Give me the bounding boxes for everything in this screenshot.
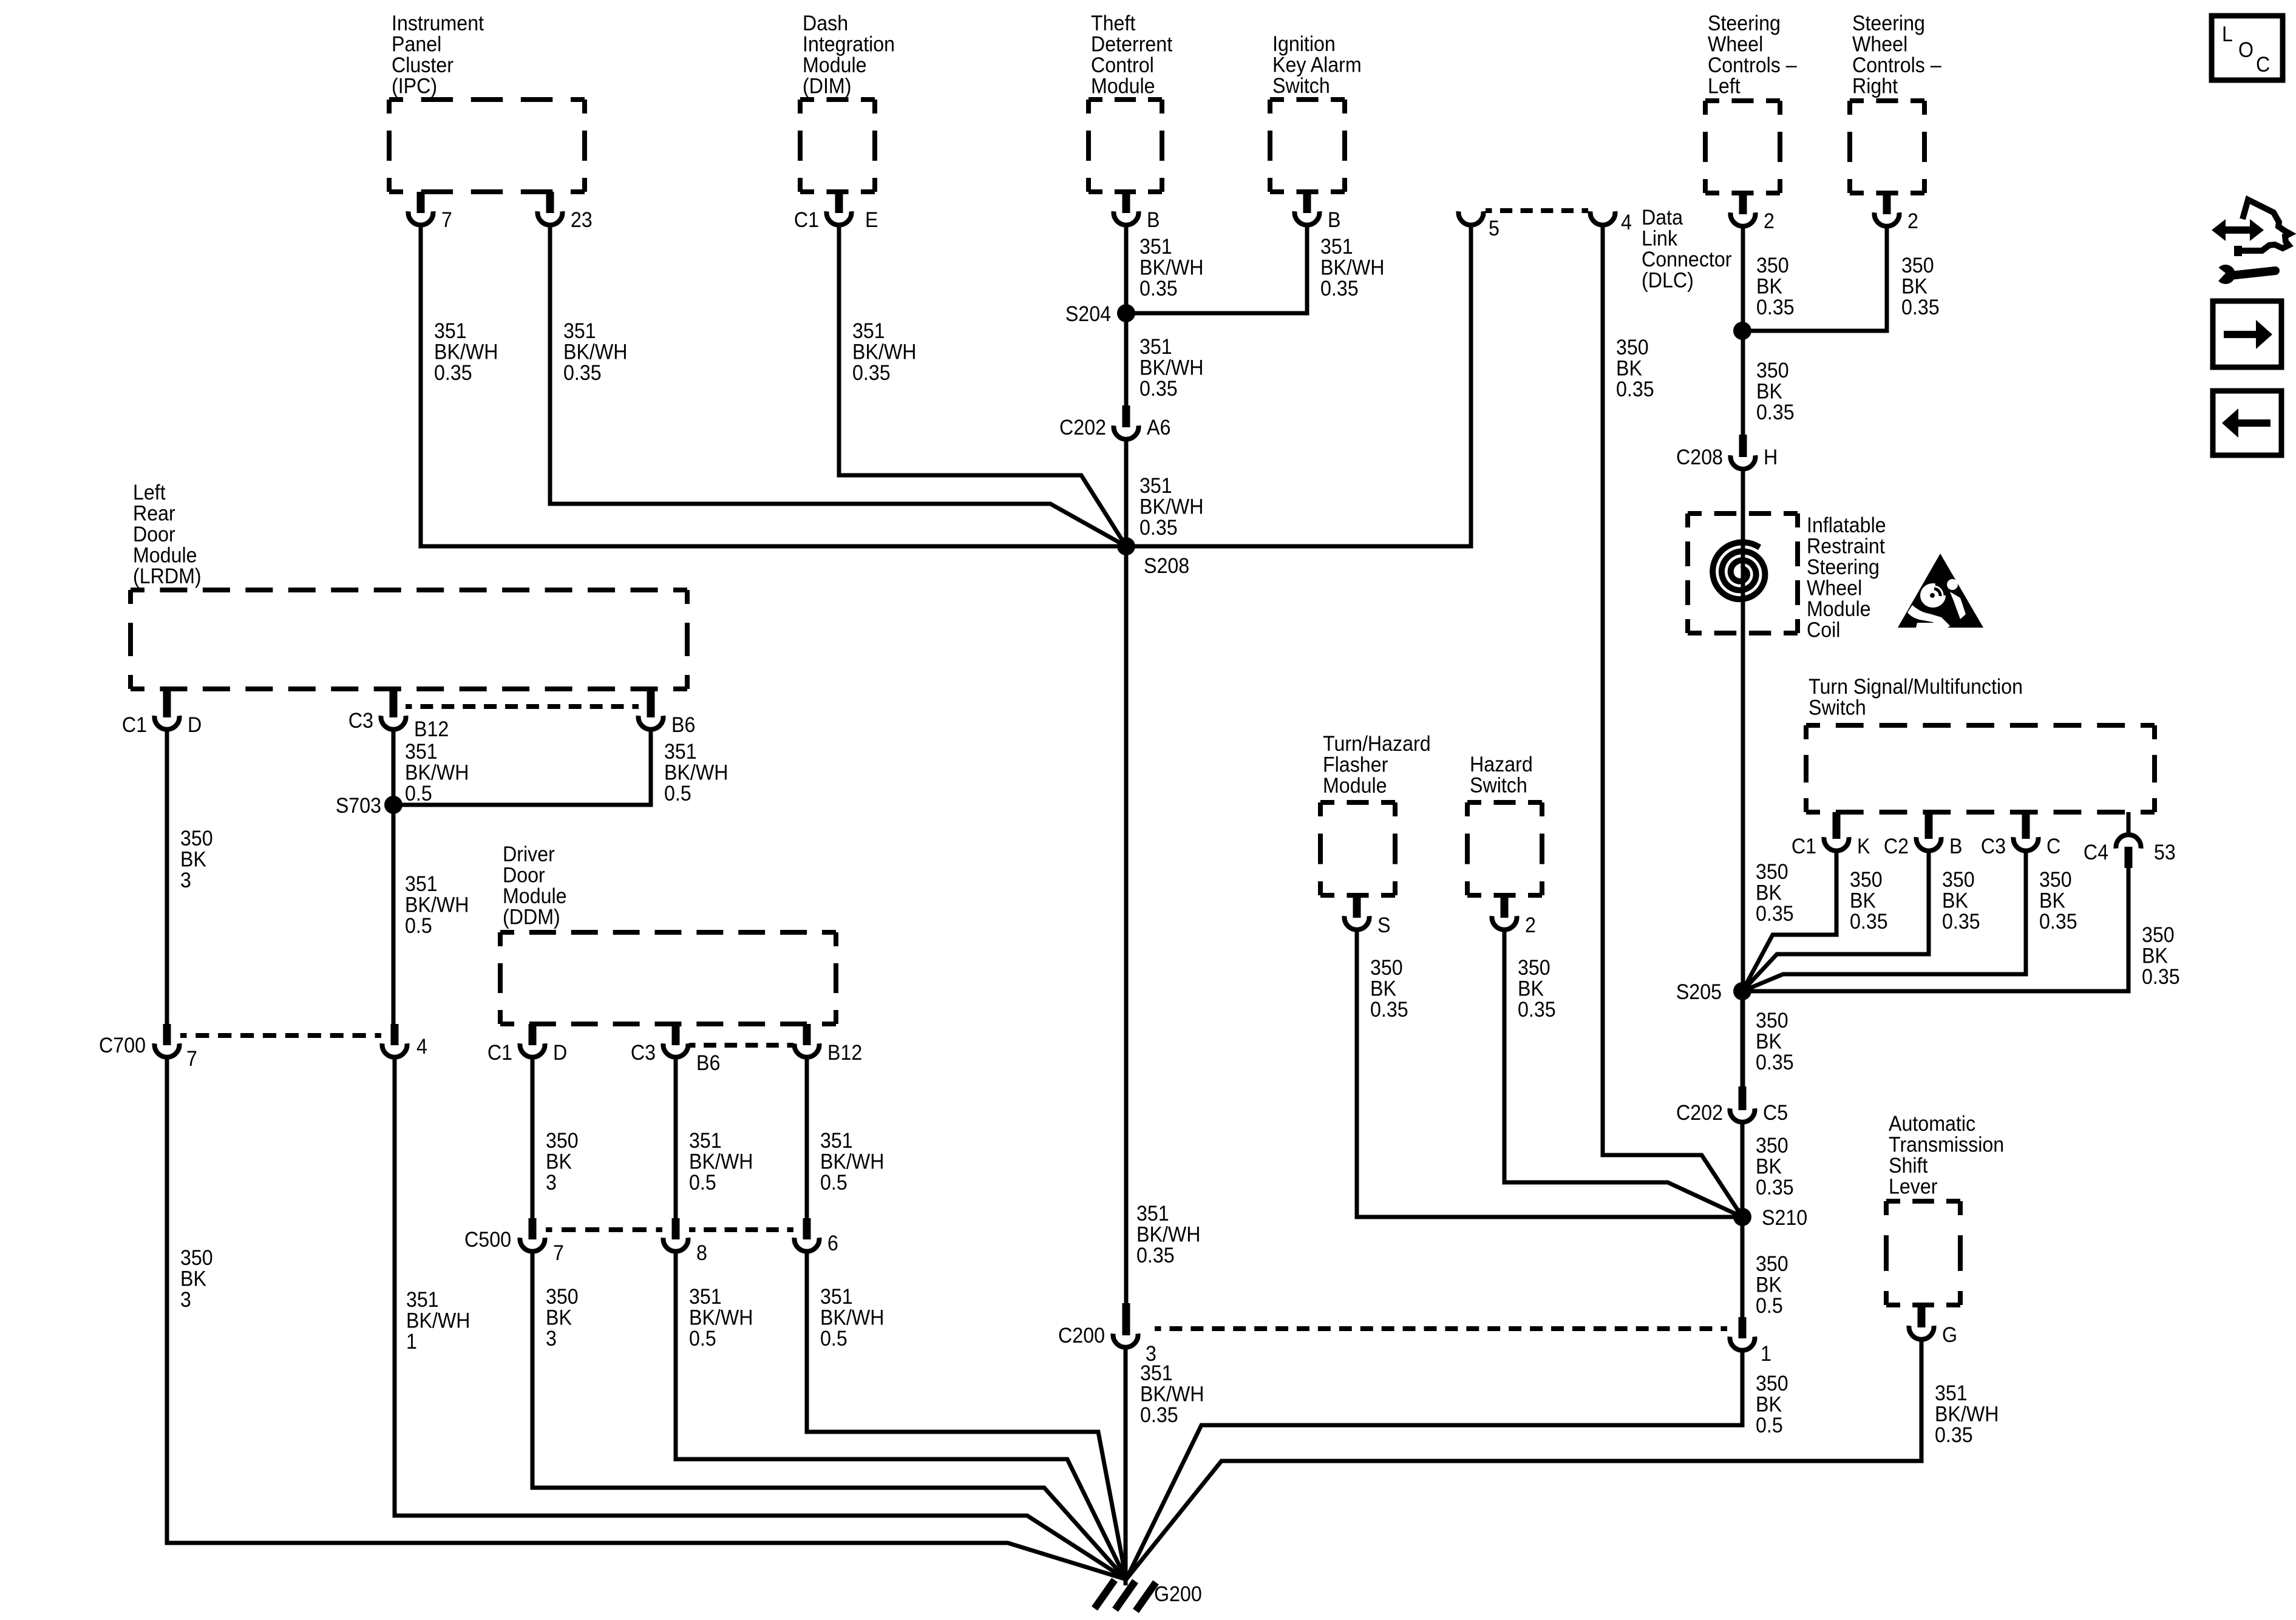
component Theft Deterrent Control Module dashed box [1089,12,1173,192]
svg-text:0.5: 0.5 [689,1171,716,1195]
svg-text:0.35: 0.35 [2142,966,2180,989]
svg-text:Steering: Steering [1852,12,1925,36]
svg-text:S210: S210 [1762,1207,1807,1230]
wire 351 BK/WH from S703 to C700 pin 4 [392,805,396,1024]
svg-text:Flasher: Flasher [1323,753,1388,777]
label 350 BK 0.35 (Flasher wire) [1370,957,1408,1022]
dashed link between C500 pin 7 and pin 8 [546,1227,662,1232]
connector pin 2 of Steering Wheel Controls Right [1875,193,1918,233]
svg-text:BK/WH: BK/WH [1140,356,1203,380]
connector pin C3-B6 of DDM [631,1024,721,1075]
svg-text:C500: C500 [464,1229,511,1252]
svg-text:D: D [553,1042,567,1065]
svg-text:7: 7 [186,1048,197,1071]
svg-text:351: 351 [1136,1202,1169,1226]
svg-text:C: C [2256,53,2270,77]
svg-text:351: 351 [405,741,438,764]
connector pin B12 of DDM [795,1024,863,1065]
wire 351 BK/WH from shift lever pin G to G200 [1126,1339,1921,1579]
svg-text:2: 2 [1907,210,1918,234]
svg-text:350: 350 [1756,254,1789,278]
connector pin C1-D of DDM [487,1024,567,1065]
svg-text:Module: Module [1091,75,1155,98]
svg-text:(DDM): (DDM) [503,906,560,929]
svg-text:Left: Left [1708,75,1741,98]
connector pin 2 of Steering Wheel Controls Left [1731,193,1775,233]
svg-text:B12: B12 [414,718,449,742]
svg-text:0.35: 0.35 [1935,1424,1973,1448]
connector pin C1-D of LRDM [122,689,202,737]
connector pin C1-K of Turn Signal/Multifunction Switch [1792,812,1870,858]
label 351 BK/WH 0.5 (DDM B6 wire) [689,1130,753,1195]
connector C208 pin H in-line [1676,435,1778,469]
connector C202 pin A6 in-line [1059,405,1170,439]
component Inflatable Restraint Steering Wheel Module Coil dashed box with coil symbol [1688,513,1886,642]
icon service tool with arrows [2210,200,2290,284]
wire 351 BK/WH from Ignition Key Alarm Switch pin B to S204 [1126,225,1307,313]
icon back arrow box [2213,391,2281,455]
svg-text:0.35: 0.35 [1140,517,1178,540]
svg-text:BK: BK [546,1306,572,1330]
svg-text:4: 4 [416,1035,427,1059]
connector pin C4-53 of Turn Signal/Multifunction Switch [2084,812,2176,868]
svg-text:351: 351 [689,1130,722,1153]
svg-text:K: K [1857,835,1870,859]
wire 350 BK from DLC pin 4 to S210 [1603,225,1742,1217]
svg-text:Turn/Hazard: Turn/Hazard [1323,733,1431,756]
svg-text:BK: BK [1756,380,1782,404]
svg-text:BK/WH: BK/WH [406,1309,470,1333]
svg-text:C202: C202 [1676,1102,1723,1125]
svg-text:D: D [188,714,202,737]
connector pin C1-E of DIM [794,192,878,232]
svg-text:BK: BK [1756,1273,1782,1297]
svg-text:Hazard: Hazard [1470,753,1533,777]
dashed link between DLC pin 5 and pin 4 [1486,208,1588,213]
svg-text:BK/WH: BK/WH [1935,1403,1999,1426]
svg-text:BK: BK [2142,944,2168,968]
svg-text:Rear: Rear [133,502,175,526]
svg-text:Wheel: Wheel [1708,33,1763,56]
svg-text:0.35: 0.35 [1518,998,1556,1022]
svg-text:7: 7 [553,1242,564,1266]
label 350 BK 0.35 (wire junction to C208) [1756,359,1795,425]
junction of steering wheel controls grounds [1733,322,1751,340]
label 351 BK/WH 0.35 (Ignition Key Alarm Switch wire) [1320,236,1384,301]
wire 350 BK from Flasher pin S to S210 [1357,929,1742,1217]
svg-text:0.35: 0.35 [1320,277,1359,301]
connector pin C3-C of Turn Signal/Multifunction Switch [1981,812,2060,858]
svg-text:0.35: 0.35 [1756,1176,1794,1200]
svg-text:B: B [1328,209,1340,232]
svg-text:BK: BK [180,848,206,872]
svg-text:350: 350 [1901,254,1934,278]
svg-text:23: 23 [571,209,593,232]
svg-text:5: 5 [1489,217,1500,241]
svg-text:0.5: 0.5 [405,915,432,938]
wire 350 BK from Hazard Switch pin 2 to S210 [1504,929,1742,1217]
svg-text:351: 351 [1140,475,1172,498]
svg-text:351: 351 [689,1286,722,1309]
svg-text:350: 350 [1756,861,1788,884]
svg-text:BK/WH: BK/WH [820,1150,884,1174]
svg-text:C1: C1 [794,209,819,232]
svg-text:S205: S205 [1676,981,1722,1005]
svg-text:350: 350 [1942,869,1975,892]
connector pin B6 of LRDM [639,689,696,737]
label 351 BK/WH 0.35 (IPC pin 7 wire) [434,320,498,385]
svg-text:6: 6 [827,1232,838,1256]
wire 351 BK/WH from C500 pin 6 to G200 [807,1251,1126,1579]
svg-text:0.35: 0.35 [1901,296,1940,320]
connector pin 1 in-line (to C200 pin 3) [1730,1317,1771,1366]
svg-text:0.35: 0.35 [1140,378,1178,401]
component Turn/Hazard Flasher Module dashed box [1320,733,1431,895]
svg-text:0.35: 0.35 [1136,1244,1175,1268]
svg-text:Inflatable: Inflatable [1807,514,1886,538]
svg-text:C208: C208 [1676,446,1723,470]
component DDM (Driver Door Module) dashed box [500,843,836,1024]
svg-text:BK: BK [1850,889,1876,913]
svg-text:2: 2 [1525,914,1536,938]
svg-text:350: 350 [180,1247,213,1270]
svg-text:350: 350 [1756,1372,1788,1396]
svg-text:C3: C3 [631,1042,656,1065]
wire 351 BK/WH from DDM pin B6 to C500 pin 8 [674,1057,678,1218]
component Steering Wheel Controls Right dashed box [1850,12,1941,193]
svg-text:Switch: Switch [1470,774,1527,798]
wire 351 BK/WH from DIM pin E to S208 [839,225,1126,546]
wire 351 BK/WH from C700 pin 4 to G200 [395,1057,1126,1579]
svg-text:BK: BK [1942,889,1968,913]
svg-text:350: 350 [1756,359,1789,383]
svg-text:BK: BK [2039,889,2065,913]
svg-text:2: 2 [1764,210,1775,234]
connector pin G of Automatic Transmission Shift Lever [1909,1305,1958,1347]
connector C500 pin 7 in-line [464,1218,564,1265]
label 351 BK/WH 0.35 (shift lever wire) [1935,1382,1999,1448]
label 351 BK/WH 0.35 (DIM wire) [852,320,916,385]
connector C500 pin 6 in-line [795,1218,838,1255]
svg-text:B: B [1949,835,1962,859]
dashed link between LRDM pin B12 and pin B6 [406,704,639,709]
svg-text:S208: S208 [1144,555,1189,578]
svg-text:Theft: Theft [1091,12,1136,36]
svg-text:Instrument: Instrument [392,12,484,36]
dashed link between C700 pin 7 and pin 4 [180,1033,381,1038]
svg-text:Right: Right [1852,75,1898,98]
svg-text:C700: C700 [99,1034,146,1058]
svg-text:0.5: 0.5 [1756,1414,1783,1438]
component Ignition Key Alarm Switch dashed box [1270,33,1362,192]
svg-text:7: 7 [441,209,452,232]
svg-text:351: 351 [1935,1382,1968,1406]
label 350 BK 0.35 (SWC Right wire) [1901,254,1940,320]
splice S205 [1676,981,1751,1005]
label 350 BK 0.35 (SWC Left wire) [1756,254,1795,320]
connector C500 pin 8 in-line [664,1218,707,1265]
svg-text:350: 350 [1756,1134,1788,1158]
svg-text:350: 350 [1850,869,1883,892]
svg-text:0.35: 0.35 [1756,1051,1794,1075]
svg-text:Controls –: Controls – [1708,54,1797,78]
svg-text:0.5: 0.5 [820,1171,847,1195]
connector pin B of Ignition Key Alarm Switch [1295,192,1341,232]
svg-text:Key Alarm: Key Alarm [1272,53,1362,77]
component LRDM (Left Rear Door Module) dashed box [131,481,687,689]
svg-text:0.5: 0.5 [820,1327,847,1351]
svg-text:0.5: 0.5 [405,782,432,806]
svg-text:0.35: 0.35 [1140,277,1178,301]
label 351 BK/WH 0.35 (TDCM wire above S204) [1140,236,1203,301]
splice S204 [1065,303,1135,327]
svg-text:0.35: 0.35 [1850,910,1888,934]
label 350 BK 0.35 (TSM 53 wire) [2142,924,2180,989]
wire 350 BK from TSM pin 53 to S205 [1742,868,2128,991]
svg-text:(IPC): (IPC) [392,75,437,98]
svg-text:BK/WH: BK/WH [852,341,916,364]
svg-text:C5: C5 [1763,1102,1788,1125]
svg-text:Controls –: Controls – [1852,54,1941,78]
label 351 BK/WH 0.5 (wire C500 pin 8 to G200) [689,1286,753,1351]
svg-text:Module: Module [803,54,867,78]
svg-text:0.35: 0.35 [434,362,472,385]
svg-text:0.35: 0.35 [1756,401,1795,425]
svg-text:Driver: Driver [503,843,555,867]
svg-text:351: 351 [405,873,438,896]
svg-text:Transmission: Transmission [1889,1133,2004,1157]
wire 350 BK from C202 C5 to S210 [1741,1122,1745,1217]
svg-text:A6: A6 [1147,416,1170,440]
label 351 BK/WH 0.35 (IPC pin 23 wire) [563,320,627,385]
wire 351 BK/WH from C200 pin 3 to G200 [1124,1347,1128,1585]
svg-text:Door: Door [133,523,175,547]
svg-text:Door: Door [503,864,545,887]
svg-text:Switch: Switch [1272,75,1330,98]
svg-text:BK: BK [1518,977,1544,1001]
svg-text:BK: BK [1901,275,1927,299]
svg-text:BK/WH: BK/WH [820,1306,884,1330]
svg-text:0.5: 0.5 [689,1327,716,1351]
svg-text:S204: S204 [1065,303,1111,327]
label 351 BK/WH 0.35 (wire C202 A6 to S208) [1140,475,1203,540]
svg-text:BK: BK [1756,881,1782,905]
wire 350 BK from connector 1 to G200 [1126,1350,1742,1579]
component Automatic Transmission Shift Lever dashed box [1886,1113,2004,1305]
svg-text:0.35: 0.35 [2039,910,2077,934]
svg-text:3: 3 [546,1327,557,1351]
connector C700 pin 7 in-line [99,1024,197,1071]
svg-text:G: G [1942,1324,1957,1347]
svg-text:BK: BK [1756,1393,1782,1417]
svg-text:(LRDM): (LRDM) [133,565,202,589]
svg-text:Deterrent: Deterrent [1091,33,1173,56]
svg-text:C3: C3 [348,710,373,733]
component Steering Wheel Controls Left dashed box [1705,12,1797,193]
wire 350 BK from TSM pin B to S205 [1742,850,1929,991]
connector pin 23 of IPC [537,192,592,232]
svg-text:B6: B6 [696,1052,720,1076]
svg-text:O: O [2238,39,2254,63]
label 350 BK 0.35 (wire coil to S205) [1756,861,1794,926]
wire 351 BK/WH from LRDM pin B12 to S703 [392,729,396,805]
svg-text:S: S [1377,914,1390,938]
splice S210 [1733,1207,1807,1230]
svg-text:BK: BK [1756,275,1782,299]
svg-text:3: 3 [546,1171,557,1195]
label 350 BK 0.5 (wire S210 to connector 1) [1756,1253,1788,1318]
svg-text:350: 350 [2142,924,2175,947]
svg-text:BK/WH: BK/WH [405,893,469,917]
svg-text:Module: Module [1323,774,1387,798]
svg-text:C: C [2046,835,2060,859]
svg-text:BK/WH: BK/WH [405,761,469,785]
svg-text:BK: BK [1756,1030,1782,1054]
svg-text:B: B [1147,209,1160,232]
connector pin S of Turn/Hazard Flasher Module [1345,895,1391,937]
svg-text:0.35: 0.35 [563,362,602,385]
svg-text:BK/WH: BK/WH [664,761,728,785]
label 351 BK/WH 0.5 (wire S703 to C700 pin 4) [405,873,469,938]
svg-text:351: 351 [1320,236,1353,259]
connector pin 4 of DLC [1591,211,1632,235]
component Hazard Switch dashed box [1467,753,1542,895]
label 350 BK 0.35 (wire S205 to C202 C5) [1756,1009,1794,1075]
svg-text:Dash: Dash [803,12,848,36]
splice S208 [1117,537,1189,578]
svg-text:Module: Module [503,885,567,909]
svg-text:Ignition: Ignition [1272,33,1336,56]
svg-text:8: 8 [696,1242,707,1266]
wire 350 BK from C208 H through coil to S205 [1741,469,1745,1086]
wire 351 BK/WH from Theft Deterrent Control Module pin B to C202 A6 [1124,225,1129,405]
svg-text:3: 3 [180,869,191,893]
svg-text:350: 350 [546,1286,579,1309]
label 351 BK/WH 0.5 (LRDM B6 wire) [664,741,728,806]
svg-text:BK/WH: BK/WH [1136,1223,1200,1247]
svg-text:Wheel: Wheel [1807,577,1862,600]
svg-text:351: 351 [434,320,467,344]
icon forward arrow box [2213,301,2281,367]
svg-text:0.35: 0.35 [852,362,891,385]
svg-text:0.35: 0.35 [1140,1404,1178,1428]
svg-text:H: H [1764,446,1778,470]
connector C200 pin 3 in-line [1058,1303,1156,1366]
wire 350 BK from C700 pin 7 to G200 [167,1057,1126,1579]
wire 351 BK/WH from LRDM pin B6 to S703 [393,729,651,805]
connector pin 2 of Hazard Switch [1492,895,1536,937]
dashed link between C500 pin 8 and pin 6 [689,1227,793,1232]
svg-text:BK: BK [546,1150,572,1174]
svg-text:(DLC): (DLC) [1642,269,1694,293]
wire 350 BK from Steering Wheel Controls Right pin 2 to junction [1743,226,1887,331]
svg-text:Steering: Steering [1807,556,1880,580]
svg-text:Left: Left [133,481,166,505]
svg-text:1: 1 [406,1330,417,1354]
svg-text:351: 351 [1140,1362,1173,1386]
wire 351 BK/WH from DDM pin B12 to C500 pin 6 [805,1057,809,1218]
label 350 BK 0.35 (wire C202 C5 to S210) [1756,1134,1794,1200]
svg-text:350: 350 [1756,1009,1788,1033]
label 350 BK 3 (LRDM D wire) [180,827,213,893]
svg-text:Panel: Panel [392,33,441,56]
svg-text:(DIM): (DIM) [803,75,851,98]
connector C202 pin C5 in-line [1676,1086,1788,1125]
component DIM (Dash Integration Module) dashed box [800,12,895,192]
label 350 BK 0.5 (wire below connector 1) [1756,1372,1788,1438]
svg-text:3: 3 [180,1289,191,1312]
connector pin 5 of DLC [1459,211,1500,240]
svg-text:BK: BK [1370,977,1396,1001]
svg-text:Steering: Steering [1708,12,1781,36]
label 351 BK/WH 1 (wire C700 pin 4 to G200) [406,1289,470,1354]
svg-text:C1: C1 [122,714,147,737]
svg-text:L: L [2222,23,2233,47]
svg-text:C1: C1 [1792,835,1816,859]
svg-text:BK/WH: BK/WH [1140,495,1203,519]
svg-text:0.35: 0.35 [1370,998,1408,1022]
svg-text:351: 351 [1140,236,1172,259]
svg-text:351: 351 [563,320,596,344]
component IPC (Instrument Panel Cluster) dashed box [389,12,585,192]
svg-text:350: 350 [1370,957,1403,980]
svg-text:Wheel: Wheel [1852,33,1907,56]
svg-text:BK: BK [1756,1155,1782,1179]
label 350 BK 0.35 (DLC pin 4 wire) [1616,336,1654,402]
svg-text:C3: C3 [1981,835,2006,859]
icon airbag warning triangle [1898,554,1983,631]
wire 350 BK from C500 pin 7 to G200 [532,1251,1126,1579]
svg-text:Lever: Lever [1889,1175,1938,1199]
connector C700 pin 4 in-line [382,1024,427,1059]
wire 350 BK from DDM pin D to C500 pin 7 [531,1057,535,1218]
label Data Link Connector (DLC) [1642,206,1731,293]
svg-text:0.35: 0.35 [1616,378,1654,402]
wire 350 BK from TSM pin K to S205 [1742,850,1836,991]
svg-text:S703: S703 [336,795,381,818]
svg-text:Shift: Shift [1889,1154,1928,1178]
svg-text:BK: BK [180,1267,206,1291]
dashed link between DDM pin B6 and pin B12 [689,1043,793,1048]
svg-text:0.35: 0.35 [1942,910,1980,934]
label 351 BK/WH 0.35 (wire C200 pin 3 to G200) [1140,1362,1204,1428]
svg-text:B6: B6 [671,714,695,737]
svg-text:Control: Control [1091,54,1154,78]
ground G200 [1095,1580,1202,1611]
dashed link between C200 pin 3 and connector 1 [1155,1326,1727,1331]
svg-text:C2: C2 [1884,835,1909,859]
wire 351 BK/WH from IPC pin 7 to S208 and DLC pin 5 [421,225,1471,546]
svg-text:BK/WH: BK/WH [563,341,627,364]
wire 351 BK/WH from C500 pin 8 to G200 [676,1251,1126,1579]
label 351 BK/WH 0.5 (LRDM B12 wire) [405,741,469,806]
svg-text:Integration: Integration [803,33,895,56]
label 351 BK/WH 0.35 (wire S204 to C202 A6) [1140,336,1203,401]
svg-text:0.35: 0.35 [1756,296,1795,320]
svg-text:Data: Data [1642,206,1683,230]
connector pin B of Theft Deterrent Control Module [1114,192,1160,232]
wire 350 BK from TSM pin C to S205 [1742,850,2026,991]
svg-text:Module: Module [133,544,197,568]
splice S703 [336,795,402,818]
label 350 BK 3 (wire C500 pin 7 to G200) [546,1286,579,1351]
svg-text:Connector: Connector [1642,248,1731,272]
wire 350 BK from Steering Wheel Controls Left pin 2 down to C208 [1741,226,1745,435]
label 350 BK 3 (wire C700 pin 7 to G200) [180,1247,213,1312]
label 351 BK/WH 0.5 (DDM B12 wire) [820,1130,884,1195]
svg-text:BK/WH: BK/WH [1140,1383,1204,1406]
svg-text:BK/WH: BK/WH [689,1306,753,1330]
